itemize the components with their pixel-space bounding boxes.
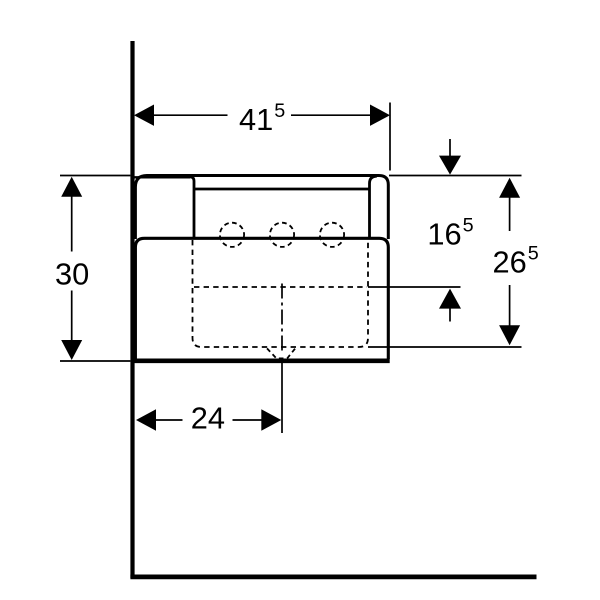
dim 26.5 upper segment [509, 197, 511, 231]
dim 16.5 arrow up tail [449, 308, 451, 322]
washbasin lower outline [135, 238, 388, 359]
floor [130, 575, 536, 580]
svg-text:24: 24 [191, 401, 225, 436]
dim 41.5 arrow left [134, 105, 154, 126]
top extension line right [389, 175, 522, 177]
svg-text:165: 165 [427, 214, 473, 251]
tap hole circle 1 [220, 223, 244, 247]
dim 41.5 line left segment [153, 114, 228, 116]
svg-text:415: 415 [239, 100, 285, 137]
wall [130, 41, 134, 578]
tap hole circle 3 [320, 223, 344, 247]
back ledge edge [135, 176, 191, 178]
dim 26.5 arrow down (bottom) [499, 325, 520, 345]
dim 30 ext line top [60, 175, 130, 177]
washbasin upper outline [135, 176, 388, 240]
dim 30 ext line bottom [60, 360, 130, 362]
dim 16.5 arrow down tail [449, 139, 451, 156]
dim 30 arrow down [61, 340, 82, 360]
hidden body dashed outline [193, 240, 369, 347]
dim 41.5 arrow right [370, 105, 390, 126]
drain funnel dashed [267, 348, 295, 358]
svg-text:265: 265 [493, 243, 539, 280]
hidden waste level dashed line [194, 286, 367, 288]
dim 24 arrow left [136, 409, 156, 430]
dim 41.5 extension line [389, 103, 391, 171]
dim 26.5 arrow up (top) [499, 178, 520, 198]
dim 16.5 arrow up (bottom) [439, 289, 461, 309]
inner bowl rim line [194, 188, 370, 191]
dim 24 arrow right [261, 409, 281, 430]
inner front rim vertical [370, 176, 377, 238]
bottom extension line right [368, 346, 522, 348]
dim 26.5 lower segment [509, 285, 511, 326]
dim 24 line left segment [155, 419, 183, 421]
dim 41.5 line right segment [291, 114, 371, 116]
centerline dash-dot [281, 284, 283, 434]
tap hole circle 2 [270, 223, 294, 247]
dim 30 arrow up [61, 177, 82, 197]
dim 16.5 arrow down (top) [439, 156, 461, 175]
inner deck edge vertical left [190, 177, 194, 238]
basin bottom [135, 358, 390, 363]
svg-text:30: 30 [55, 256, 89, 291]
dim 24 line right segment [233, 419, 263, 421]
extension line from waste level [368, 286, 461, 288]
dim 30 line lower segment [71, 291, 73, 343]
dim 30 line upper segment [71, 197, 73, 252]
